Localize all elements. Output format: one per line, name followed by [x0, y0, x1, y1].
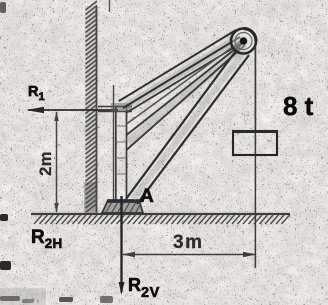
- hoist rope upper span: [127, 42, 245, 135]
- label 8t: [283, 91, 313, 122]
- ground bleed: [31, 212, 290, 217]
- tie rod lower edge: [123, 37, 240, 108]
- wall shade band: [85, 6, 98, 214]
- ground hatching: [34, 215, 290, 224]
- ground line: [31, 213, 290, 215]
- pulley outer: [231, 29, 256, 54]
- label R2H: [31, 227, 63, 251]
- mast post: [116, 107, 127, 201]
- bracket knot: [111, 103, 132, 112]
- wall top tick: [109, 0, 111, 12]
- label R1: [28, 84, 45, 103]
- post rungs: [116, 126, 126, 174]
- scan bleed under tie bundle: [123, 37, 240, 108]
- tie rod upper edge: [119, 30, 236, 101]
- boom upper edge: [126, 44, 241, 199]
- wall bottom dark patch: [84, 182, 98, 214]
- hoist rope lower span: [127, 45, 246, 150]
- reaction R2V arrow: [119, 196, 125, 295]
- reaction R1 arrow: [26, 107, 118, 113]
- 3m dimension line: [122, 252, 256, 257]
- base pedestal: [102, 200, 143, 213]
- scan bleed under boom: [133, 50, 245, 199]
- label 2m: [37, 147, 56, 180]
- label R2V: [128, 275, 160, 301]
- weight box: [232, 131, 278, 155]
- wall hatching: [86, 1, 98, 213]
- extension line below box: [254, 131, 256, 268]
- rope to load: [254, 46, 256, 131]
- wall face line: [96, 6, 98, 214]
- label A: [140, 186, 154, 208]
- pulley inner rim: [235, 33, 252, 50]
- pulley pin: [240, 37, 248, 45]
- hoist rope middle span: [127, 40, 243, 124]
- scan smudges: [0, 2, 113, 305]
- boom lower edge: [137, 55, 249, 204]
- top bracket bar: [98, 107, 132, 112]
- pin line at wall attachment: [113, 85, 115, 200]
- 2m dimension line: [54, 111, 59, 213]
- label 3m: [173, 232, 203, 254]
- tie rod third line: [126, 42, 243, 113]
- scan bleed under hoist spans: [129, 44, 246, 142]
